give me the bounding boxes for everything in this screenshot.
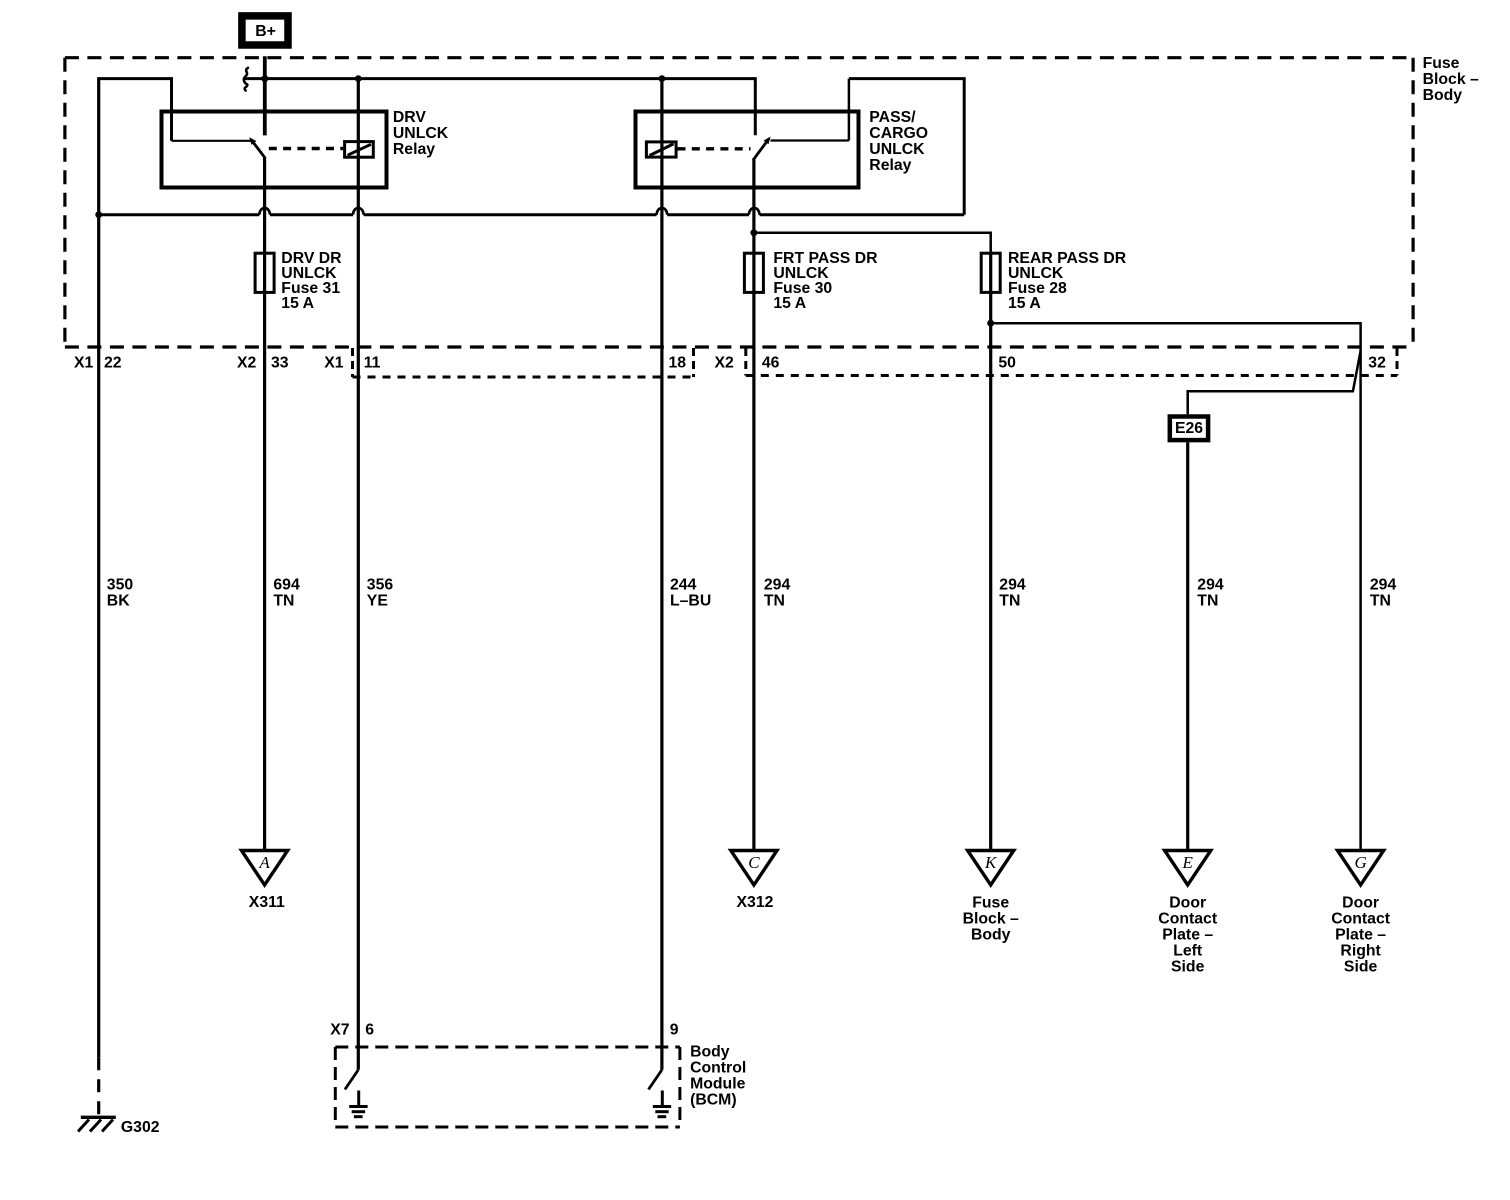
svg-text:46: 46 (762, 355, 780, 372)
relay R1 box (162, 112, 387, 188)
relay R2 box (636, 112, 859, 188)
connector triangle C (731, 851, 777, 886)
connector X2 bracket right (1396, 348, 1399, 376)
svg-text:UNLCK: UNLCK (869, 141, 925, 158)
splice squiggle at bus start (244, 68, 248, 91)
relay R2 switch blade (754, 139, 769, 159)
connector X1 box bottom dashed (353, 376, 694, 379)
svg-text:YE: YE (367, 593, 388, 610)
BCM internal ground at pin 9 (653, 1091, 671, 1117)
relay R2 contact line (771, 139, 849, 141)
wire: relay 1 coil drop (356 YE) (357, 79, 360, 1070)
svg-text:X2: X2 (715, 355, 735, 372)
svg-text:UNLCK: UNLCK (393, 125, 449, 142)
svg-text:A: A (258, 853, 270, 872)
svg-text:6: 6 (365, 1022, 374, 1039)
svg-text:TN: TN (999, 593, 1020, 610)
svg-text:694: 694 (273, 577, 300, 594)
svg-text:Door: Door (1342, 894, 1379, 911)
svg-text:9: 9 (670, 1022, 679, 1039)
bus hop over wire 356 (353, 208, 364, 215)
relay R2 blade arrowhead (764, 137, 771, 145)
wire: fuse 28 output drop (294 TN to K) (989, 252, 992, 851)
wire: B+ feed drop into relay 1 switch (263, 56, 267, 135)
bus hop over wire 694 (259, 208, 270, 215)
connector triangle G (1338, 851, 1384, 886)
wire: left drop to ground (350 BK), solid part (97, 79, 100, 1058)
connector triangle K (968, 851, 1014, 886)
connector X1 bracket left (351, 348, 354, 377)
connector X1 bracket right (692, 348, 695, 377)
ground G302 symbol (78, 1117, 116, 1131)
svg-text:244: 244 (670, 577, 697, 594)
wire: bottom bus segments with hops (99, 213, 965, 216)
wire: branch to E26 connector (1188, 351, 1361, 414)
svg-text:Door: Door (1169, 894, 1206, 911)
svg-text:Control: Control (690, 1059, 746, 1076)
svg-text:Block –: Block – (963, 910, 1019, 927)
fuse F31 (255, 253, 274, 292)
connector triangle E (1165, 851, 1211, 886)
svg-text:Relay: Relay (393, 141, 435, 158)
svg-text:Contact: Contact (1158, 910, 1218, 927)
bus hop over wire 294 (749, 208, 760, 215)
fuse F28 (981, 253, 1000, 292)
svg-text:18: 18 (669, 355, 687, 372)
svg-text:B+: B+ (255, 23, 276, 40)
svg-text:X7: X7 (330, 1022, 350, 1039)
svg-text:(BCM): (BCM) (690, 1091, 737, 1108)
svg-text:X312: X312 (737, 894, 774, 911)
svg-text:X1: X1 (324, 355, 344, 372)
svg-text:PASS/: PASS/ (869, 109, 916, 126)
wire: branch feed to fuse 28 (754, 233, 991, 252)
node: branch dot to fuse 28 feed (750, 229, 757, 236)
svg-text:33: 33 (271, 355, 289, 372)
connector triangle A (242, 851, 288, 886)
svg-text:DRV: DRV (393, 109, 427, 126)
node: B+ junction dot (261, 75, 268, 82)
svg-text:Body: Body (971, 926, 1011, 943)
svg-text:11: 11 (364, 355, 381, 372)
BCM internal ground at pin 6 (349, 1091, 367, 1117)
svg-text:G302: G302 (121, 1119, 160, 1136)
svg-text:Left: Left (1173, 942, 1203, 959)
relay R1 actuation dashed link (269, 147, 343, 150)
svg-text:X1: X1 (74, 355, 94, 372)
svg-text:32: 32 (1368, 355, 1386, 372)
wire: relay 1 output drop (694 TN) (263, 157, 266, 851)
svg-text:Module: Module (690, 1075, 745, 1092)
B+ battery terminal box (242, 16, 288, 45)
bus hop over wire 244 (657, 208, 668, 215)
svg-text:294: 294 (1197, 577, 1224, 594)
fuse block body dashed border (65, 58, 1413, 347)
svg-text:294: 294 (999, 577, 1026, 594)
svg-text:TN: TN (273, 593, 294, 610)
svg-text:294: 294 (764, 577, 791, 594)
svg-text:TN: TN (764, 593, 785, 610)
svg-text:350: 350 (107, 577, 134, 594)
svg-text:TN: TN (1370, 593, 1391, 610)
svg-text:Relay: Relay (869, 157, 911, 174)
svg-text:15 A: 15 A (773, 295, 806, 312)
relay R2 actuation dashed link (678, 147, 751, 150)
wire: relay 2 output drop (294 TN to C) (752, 158, 755, 851)
wire: relay 1 contact line (172, 140, 253, 142)
svg-text:L–BU: L–BU (670, 593, 711, 610)
node: bus left junction dot (95, 211, 102, 218)
svg-text:Body: Body (690, 1043, 730, 1060)
connector X2 box bottom dashed (746, 374, 1397, 377)
svg-text:C: C (748, 853, 760, 872)
svg-text:Fuse: Fuse (1423, 55, 1460, 72)
svg-text:50: 50 (998, 355, 1016, 372)
svg-text:E: E (1182, 853, 1194, 872)
svg-text:15 A: 15 A (281, 295, 314, 312)
svg-text:Right: Right (1340, 942, 1381, 959)
wire: left drop dashed lower part (97, 1057, 100, 1115)
BCM driver for pin 9: switch diagonal (649, 1070, 662, 1090)
svg-text:X311: X311 (249, 894, 285, 911)
wire: top right return bus (849, 79, 964, 215)
svg-text:G: G (1354, 853, 1366, 872)
node: junction dot to door contact feed (987, 320, 994, 327)
svg-text:Side: Side (1171, 958, 1205, 975)
wire: relay 2 coil drop (244 L-BU) (660, 79, 663, 1070)
relay R1 blade arrowhead (249, 137, 256, 145)
svg-text:TN: TN (1197, 593, 1218, 610)
svg-text:X2: X2 (237, 355, 257, 372)
svg-text:Body: Body (1423, 87, 1463, 104)
BCM driver for pin 6: switch diagonal (345, 1070, 358, 1090)
relay R1 switch blade (251, 139, 264, 157)
wire: relay 1 contact feed step (99, 79, 172, 141)
svg-text:K: K (984, 853, 998, 872)
BCM dashed box (335, 1047, 680, 1127)
svg-text:Fuse: Fuse (972, 894, 1009, 911)
relay R1 coil (345, 142, 374, 158)
wire: relay 2 switch return riser (848, 79, 851, 141)
svg-text:Plate –: Plate – (1335, 926, 1386, 943)
relay R2 coil (646, 142, 676, 157)
svg-text:Plate –: Plate – (1162, 926, 1213, 943)
svg-text:356: 356 (367, 577, 394, 594)
svg-text:Contact: Contact (1331, 910, 1391, 927)
node: relay 2 coil junction dot (659, 75, 666, 82)
connector X2 bracket left (744, 348, 747, 376)
svg-text:E26: E26 (1175, 420, 1203, 437)
node: relay 1 coil junction dot (355, 75, 362, 82)
svg-text:BK: BK (107, 593, 130, 610)
wire: E26 drop (294 TN to E) (1186, 442, 1189, 850)
wire: feed to pin 32 (294 TN to G) (991, 323, 1361, 850)
svg-text:Side: Side (1344, 958, 1378, 975)
wire: top B+ bus (244, 79, 755, 136)
svg-text:22: 22 (104, 355, 122, 372)
svg-text:Block –: Block – (1423, 71, 1479, 88)
connector E26 box (1170, 417, 1208, 441)
svg-text:CARGO: CARGO (869, 125, 928, 142)
fuse F30 (744, 253, 763, 292)
svg-text:15 A: 15 A (1008, 295, 1041, 312)
svg-text:294: 294 (1370, 577, 1397, 594)
